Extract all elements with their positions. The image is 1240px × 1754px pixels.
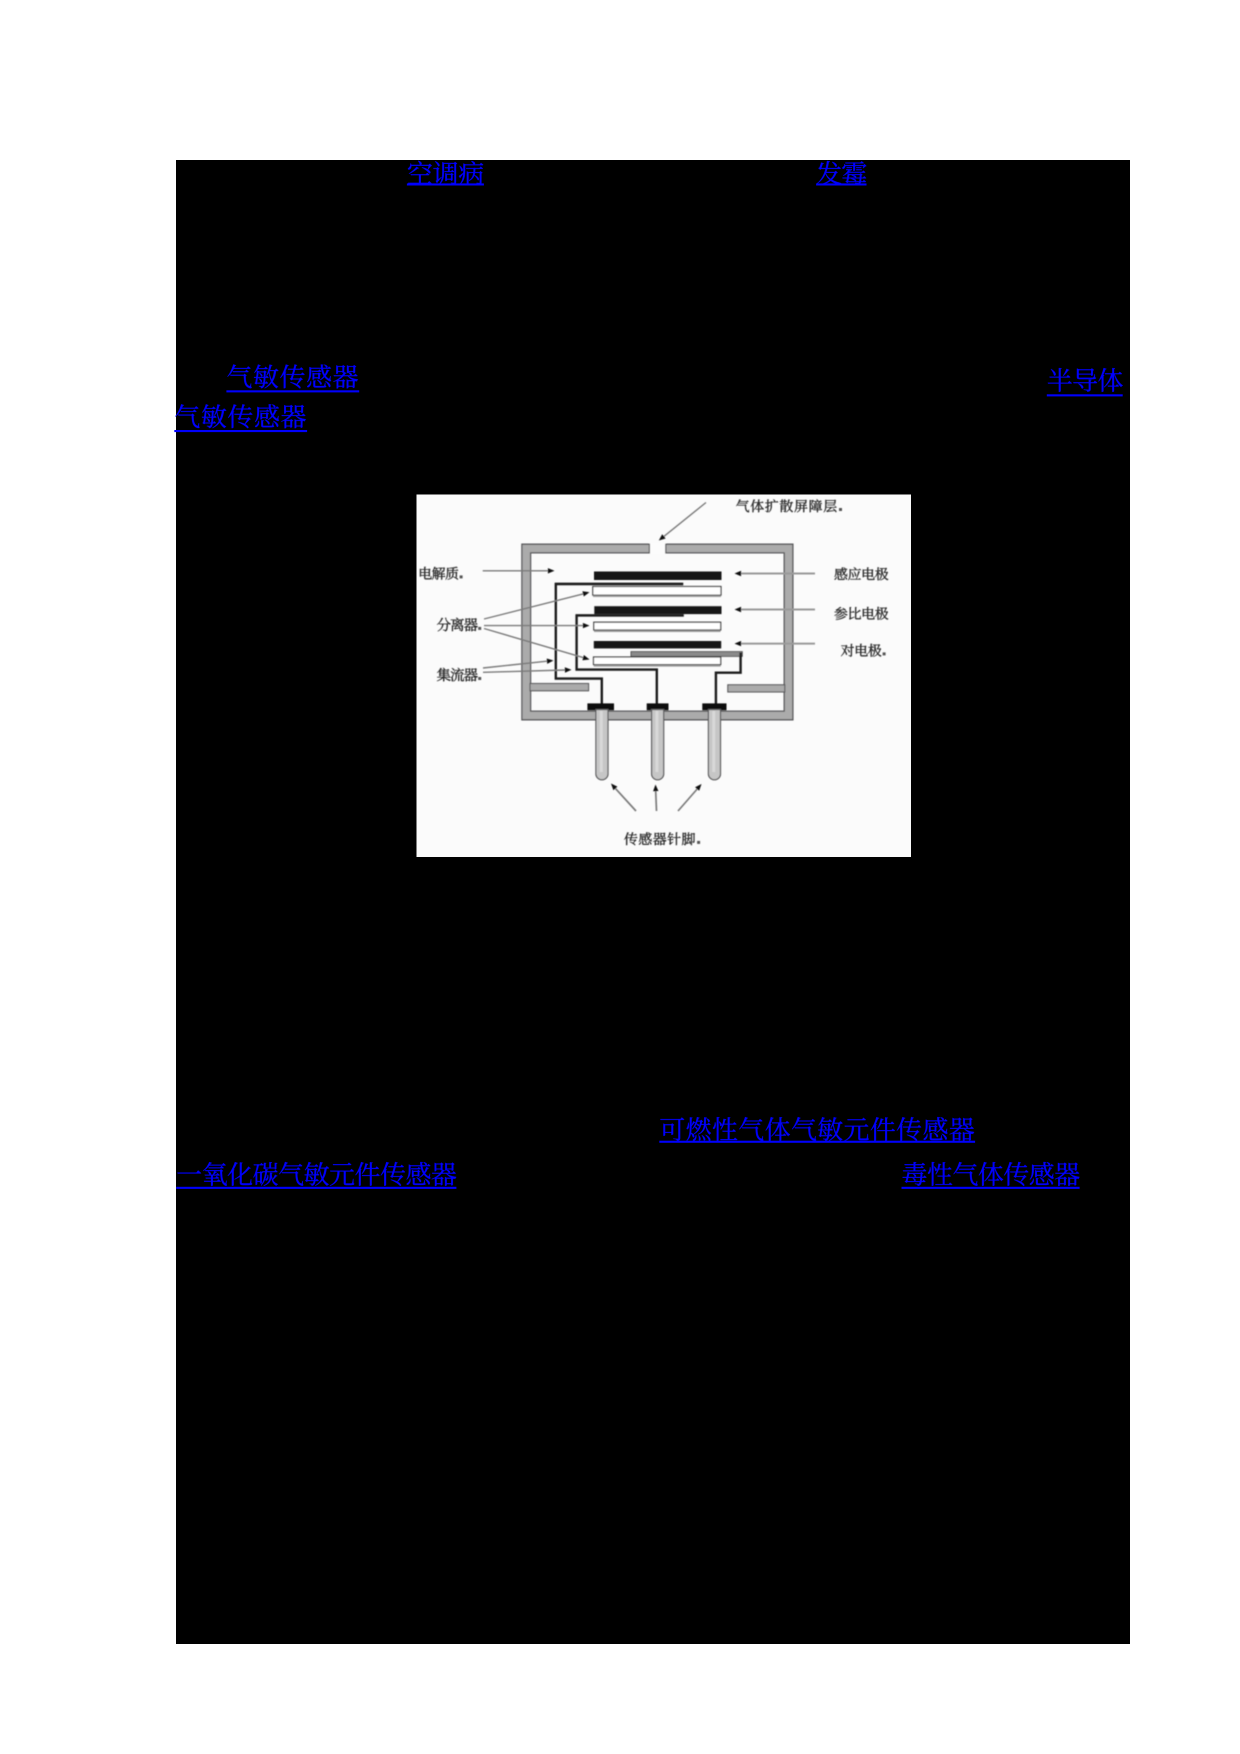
label 传感器针脚 <box>624 832 700 845</box>
sensor pin 1 <box>596 710 608 780</box>
pin pad 3 (black) <box>702 703 726 710</box>
counter electrode bar (black) <box>594 641 721 648</box>
arrow 参比电极 to reference electrode <box>735 607 816 612</box>
label 电解质 <box>420 567 463 580</box>
channel outline 3 with lead to pin 3 <box>716 653 741 705</box>
collector bar 3 (thick grey) <box>631 652 742 657</box>
label 参比电极 <box>834 607 888 620</box>
arrow 分离器 to separator 2 <box>484 623 590 628</box>
arrow 分离器 to separator 3 <box>484 629 590 661</box>
arrow 传感器针脚 to pin 2 <box>653 785 658 812</box>
label 集流器 <box>437 668 481 682</box>
sensor pin 3 <box>708 710 720 780</box>
pin pad 2 (black) <box>647 703 669 710</box>
hyperlink 毒性气体传感器 <box>902 1162 1080 1189</box>
hyperlink 空调病 <box>407 161 484 186</box>
collector line 2 (grey) <box>576 614 684 616</box>
sensor housing wall (grey, with top gas inlet gap) <box>522 543 793 720</box>
arrow 对电极 to counter electrode <box>735 641 816 646</box>
arrow 集流器 to collector (lower) <box>483 667 572 672</box>
sensor pin 2 <box>652 710 664 780</box>
left inner shelf <box>530 684 589 691</box>
right inner shelf <box>728 685 785 692</box>
label 气体扩散屏障层 <box>736 499 842 512</box>
label 分离器 <box>437 618 481 632</box>
separator bar 1 (white) <box>593 587 721 597</box>
pin pad 1 (black) <box>587 703 614 710</box>
hyperlink 半导体 <box>1047 368 1123 396</box>
channel outline 1 with lead to pin 1 <box>556 584 683 704</box>
arrow 传感器针脚 to pin 3 <box>678 784 702 811</box>
arrow 分离器 to separator 1 <box>484 591 590 619</box>
reference electrode bar (black) <box>594 606 721 614</box>
separator bar 3 (white) <box>594 657 721 666</box>
label 对电极 <box>841 644 886 657</box>
arrow 感应电极 to sensing electrode <box>735 571 816 576</box>
label 感应电极 <box>834 567 888 580</box>
embedded sensor diagram image background <box>417 495 912 858</box>
arrow 电解质 to electrolyte <box>483 568 555 573</box>
hyperlink 气敏传感器 (1) <box>226 364 359 392</box>
hyperlink 一氧化碳气敏元件传感器 <box>176 1162 456 1189</box>
sensing electrode bar (black) <box>594 572 722 581</box>
arrow to gas inlet gap <box>659 503 706 541</box>
arrow 集流器 to collector (upper) <box>483 659 554 669</box>
collector line 1 (grey) <box>555 583 683 585</box>
hyperlink 可燃性气体气敏元件传感器 <box>659 1117 975 1143</box>
separator bar 2 (white) <box>594 622 721 631</box>
hyperlink 气敏传感器 (2) <box>174 404 307 432</box>
arrow 传感器针脚 to pin 1 <box>611 784 636 812</box>
black content panel (text highlighted black-on-black) <box>176 160 1130 1644</box>
channel outline 2 with lead to pin 2 <box>577 615 684 704</box>
hyperlink 发霉 <box>816 161 866 186</box>
